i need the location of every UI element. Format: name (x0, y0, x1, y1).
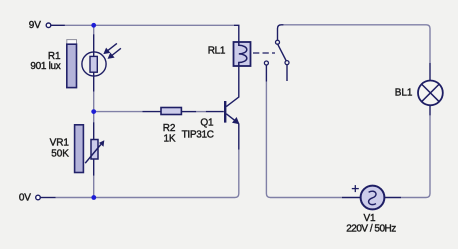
svg-text:TIP31C: TIP31C (182, 130, 214, 141)
svg-text:220V / 50Hz: 220V / 50Hz (346, 224, 396, 235)
svg-text:50K: 50K (51, 148, 69, 159)
svg-text:R2: R2 (163, 123, 176, 134)
svg-text:9V: 9V (29, 20, 41, 31)
svg-text:RL1: RL1 (208, 46, 226, 57)
svg-text:BL1: BL1 (395, 88, 413, 99)
svg-text:901 lux: 901 lux (30, 61, 60, 72)
svg-text:V1: V1 (363, 213, 376, 224)
svg-text:VR1: VR1 (50, 137, 70, 148)
svg-text:1K: 1K (163, 133, 175, 144)
svg-text:0V: 0V (19, 193, 31, 204)
svg-text:Q1: Q1 (200, 117, 214, 128)
